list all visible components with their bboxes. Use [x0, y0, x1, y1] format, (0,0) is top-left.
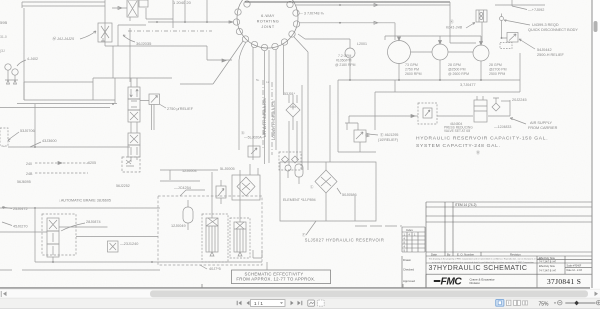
svg-text:FROM CARRIER: FROM CARRIER [528, 126, 558, 130]
svg-text:50J0586: 50J0586 [342, 193, 357, 197]
pump text blocks [405, 63, 507, 76]
wire bottom-left connectors [0, 208, 262, 270]
pump P2 [432, 44, 448, 60]
svg-text:2750 μ̸ RELIEF: 2750 μ̸ RELIEF [167, 107, 194, 111]
svg-text:28J0874: 28J0874 [86, 220, 101, 224]
wire top-left long box [22, 2, 105, 8]
svg-text:Scale #7040F: Scale #7040F [567, 265, 582, 268]
zoom in circle (clipped) [596, 301, 600, 305]
pump feed circle small [298, 34, 355, 58]
svg-text:12J0049: 12J0049 [171, 224, 186, 228]
relief valve 2750 [140, 94, 160, 130]
wire box under V2 [105, 25, 207, 46]
wire segments near V2 [112, 7, 127, 10]
svg-text:@2700 PM: @2700 PM [489, 68, 507, 72]
reservoir box [280, 162, 402, 226]
tool select icon [318, 300, 325, 306]
svg-text:53J01ⁿ: 53J01ⁿ [284, 92, 296, 96]
svg-text:54J0442: 54J0442 [537, 48, 552, 52]
svg-text:ELEMENT ⁿ5J-P894: ELEMENT ⁿ5J-P894 [283, 198, 316, 202]
wire top bus into joint [148, 21, 233, 23]
accumulator 12J0049 [183, 200, 193, 230]
svg-text:5L: 5L [256, 78, 260, 82]
svg-text:25J0472: 25J0472 [13, 207, 28, 211]
svg-text:(10̸ RELIEF): (10̸ RELIEF) [378, 138, 398, 142]
filter 50J0586 diamond [315, 162, 355, 221]
nav next button [291, 301, 294, 305]
tool snapshot icon [308, 300, 315, 306]
page input box [251, 300, 286, 307]
effectivity box [232, 250, 331, 284]
svg-text:Effectivity Note: Effectivity Note [539, 265, 556, 268]
svg-text:7.2 GPM: 7.2 GPM [338, 54, 352, 58]
svg-text:24B: 24B [26, 172, 33, 176]
wire left of pumps [302, 52, 338, 170]
svg-text:53J0706: 53J0706 [20, 129, 35, 133]
wire top dark rail [245, 1, 450, 3]
svg-text:28 GPM: 28 GPM [448, 63, 461, 67]
svg-text:— 3 7J0748 ⅜: — 3 7J0748 ⅜ [299, 12, 325, 16]
svg-text:VALVE SET AT 60̸: VALVE SET AT 60̸ [444, 129, 471, 133]
pump small pair bottom-left-top [5, 64, 18, 84]
svg-text:2500 PPM: 2500 PPM [489, 72, 505, 76]
svg-text:FROM APPROX. 12-77 TO APPROX.: FROM APPROX. 12-77 TO APPROX. [236, 276, 315, 281]
index table [402, 227, 425, 252]
spool valve SL1 [47, 218, 59, 262]
valve small 12J0004 [216, 180, 226, 204]
svg-text:Checked: Checked [403, 268, 414, 272]
svg-text:Drawn: Drawn [403, 258, 412, 262]
svg-text:1 2040 20: 1 2040 20 [173, 0, 192, 5]
svg-text:31-0: 31-0 [0, 35, 7, 39]
valve left-edge dashed [0, 128, 8, 146]
svg-text:75%: 75% [539, 301, 550, 307]
svg-text:Ⓑ: Ⓑ [476, 149, 480, 155]
svg-text:(3J: (3J [0, 49, 5, 53]
hydraulics divider dash-dot [262, 80, 264, 150]
nav last button [298, 301, 302, 305]
svg-text:HYDRAULIC RESERVOIR CAPACITY-1: HYDRAULIC RESERVOIR CAPACITY-150 GAL. [416, 136, 548, 142]
valve dashed enclosure [42, 214, 76, 255]
svg-text:4-J402: 4-J402 [27, 57, 38, 61]
sheet right border [591, 0, 593, 288]
valve V1 top-left with X [98, 23, 112, 42]
filter FL2 [230, 218, 250, 258]
svg-text:43J3600: 43J3600 [42, 139, 57, 143]
vertical scrollbar thumb [594, 21, 598, 32]
accumulator A1 [474, 96, 487, 122]
svg-text:6-WAY: 6-WAY [261, 14, 275, 18]
svg-text:Approved: Approved [403, 279, 415, 283]
svg-text:KL41-24B: KL41-24B [446, 26, 463, 30]
svg-text:Ⓚ: Ⓚ [450, 19, 454, 24]
svg-text:@ 2600 RPM: @ 2600 RPM [448, 72, 469, 76]
svg-text:–6205: –6205 [86, 161, 96, 165]
toolbar background [0, 289, 600, 309]
svg-text:JOINT: JOINT [261, 25, 274, 29]
svg-text:@ 2180 RPM: @ 2180 RPM [335, 63, 356, 67]
svg-text:Ⓐ: Ⓐ [241, 130, 245, 135]
wire dash-dot line [128, 30, 212, 32]
svg-text:—12J4833: —12J4833 [494, 125, 511, 129]
svg-text:SYSTEM CAPACITY-248 GAL.: SYSTEM CAPACITY-248 GAL. [416, 143, 501, 149]
valve 23J1240 [108, 241, 119, 252]
svg-text:—5LJ020A: —5LJ020A [244, 136, 262, 140]
svg-text:UPPER HYDRAULICS: UPPER HYDRAULICS [263, 98, 267, 137]
svg-text:74-7 24/7 B / #7: 74-7 24/7 B / #7 [539, 270, 557, 273]
svg-text:↓AUTOMATIC BRAKE 38J6605: ↓AUTOMATIC BRAKE 38J6605 [59, 198, 111, 202]
layout icon two-up [514, 300, 521, 305]
wires descending from joint [253, 45, 284, 164]
label press reducing [444, 122, 473, 133]
svg-text:L2001: L2001 [357, 42, 367, 46]
svg-text:Ⓕ: Ⓕ [302, 232, 306, 237]
svg-text:—+7J092: —+7J092 [528, 8, 544, 12]
layout icon scrolling [507, 300, 511, 305]
pressure reducing valve PR1 [418, 103, 437, 124]
valve stack VA [128, 78, 140, 122]
wire under check [289, 121, 297, 165]
wire right drop [450, 2, 482, 43]
svg-text:ITEM 14 (74-2): ITEM 14 (74-2) [455, 203, 476, 207]
horizontal scrollbar thumb [150, 290, 588, 297]
svg-text:36J2035: 36J2035 [136, 41, 152, 46]
valve stack VB [128, 122, 140, 162]
svg-text:FMC: FMC [441, 277, 463, 288]
wire joint to pumps top [296, 4, 450, 7]
pump P1 [388, 41, 411, 64]
nav prev button [247, 301, 250, 305]
svg-text:2500-H RELIEF: 2500-H RELIEF [537, 53, 564, 57]
svg-text:1 / 1: 1 / 1 [254, 301, 263, 306]
wire reservoir frame [375, 53, 520, 130]
svg-text:5LJ0005: 5LJ0005 [220, 167, 235, 171]
svg-text:Index: Index [406, 228, 413, 232]
wire vertical riser [113, 46, 115, 104]
svg-text:74-7 24/7 B / #7: 74-7 24/7 B / #7 [539, 260, 557, 263]
svg-text:This drawing is the property o: This drawing is the property of FMC Corp… [429, 257, 543, 260]
svg-text:Date: Date [431, 253, 437, 257]
layout icon two-up scrolling [523, 301, 528, 305]
svg-text:@2500 PM: @2500 PM [448, 68, 466, 72]
nav first-page button [237, 301, 249, 305]
svg-text:U4399-3 REQD: U4399-3 REQD [532, 23, 559, 27]
svg-text:45J0270: 45J0270 [13, 225, 28, 229]
wire long bus y208 [0, 207, 160, 209]
svg-text:2750 PM: 2750 PM [405, 68, 419, 72]
svg-text:2600 RPM: 2600 RPM [405, 72, 422, 76]
svg-text:Division: Division [470, 281, 481, 285]
right small cells [537, 256, 592, 288]
valve 51J020 box [248, 146, 260, 157]
svg-text:#1050/PM: #1050/PM [336, 59, 352, 63]
svg-text:56J6095: 56J6095 [17, 180, 31, 184]
window bottom edge [0, 308, 600, 309]
svg-text:12J0004: 12J0004 [182, 169, 197, 173]
quick disconnect Q1 [500, 14, 508, 39]
svg-text:Date 12 - 2-03: Date 12 - 2-03 [567, 269, 583, 272]
bottom row divider [425, 274, 427, 287]
svg-text:240: 240 [26, 162, 32, 166]
h-scroll right arrow [595, 292, 599, 297]
svg-text:73 GPM: 73 GPM [405, 63, 418, 67]
h-scroll left arrow [3, 292, 7, 297]
svg-text:AIR SUPPLY: AIR SUPPLY [530, 121, 553, 125]
svg-text:56J2252: 56J2252 [116, 184, 130, 188]
fold mark ticks [202, 284, 403, 288]
layout icon single (active) [496, 299, 504, 306]
svg-text:ROTATING: ROTATING [257, 20, 280, 24]
toolbar top divider [0, 297, 600, 299]
svg-text:QUICK DISCONNECT BODY: QUICK DISCONNECT BODY [528, 28, 578, 32]
page bottom edge [0, 287, 590, 289]
zoom slider [565, 302, 595, 304]
svg-text:5LJ5027 HYDRAULIC RESERVOIR: 5LJ5027 HYDRAULIC RESERVOIR [305, 238, 384, 243]
vertical scrollbar track [593, 0, 600, 288]
wire x105 drop [104, 0, 106, 46]
wire mid connectors [8, 104, 130, 147]
relief valve E [338, 123, 376, 152]
wire valve to 23J1240 [59, 227, 158, 237]
filter F0 diamond in box [232, 175, 260, 200]
horizontal scrollbar track [0, 290, 600, 298]
zoom out circle [558, 301, 562, 305]
svg-text:or in part, of design and spec: or in part, of design and special or com… [432, 261, 535, 264]
svg-text:20J2245: 20J2245 [512, 98, 527, 102]
title block frame [426, 202, 592, 274]
svg-text:40J7ⁿ5: 40J7ⁿ5 [209, 267, 221, 271]
svg-text:28 GPM: 28 GPM [489, 63, 502, 67]
bottom-left dashed manifold [35, 157, 140, 173]
middle-left big box [0, 78, 117, 108]
svg-text:—23J1240: —23J1240 [120, 242, 138, 246]
valve top-right box [476, 10, 487, 22]
air fitting D1 [492, 98, 500, 111]
wire suction bus [338, 58, 520, 80]
valve V2 top-center hatched [127, 0, 148, 21]
svg-text:37J0841 S: 37J0841 S [547, 277, 581, 286]
filter FL1 [202, 214, 228, 262]
center cluster: dashed box with filter [158, 196, 262, 265]
svg-text:3,7J0477: 3,7J0477 [460, 83, 476, 87]
wire pump links [385, 36, 481, 52]
twin check dashed box [279, 152, 301, 170]
svg-text:Ⓔ 46J1295: Ⓔ 46J1295 [380, 132, 398, 137]
fine print [429, 257, 543, 264]
FMC logo [434, 277, 463, 288]
svg-text:59B: 59B [0, 20, 7, 25]
revision columns [445, 202, 481, 256]
svg-text:LOWER HYDRAULICS: LOWER HYDRAULICS [272, 100, 276, 140]
svg-text:Ⓜ J4J-J4J25: Ⓜ J4J-J4J25 [52, 36, 75, 41]
wire left vertical bus [23, 8, 25, 100]
svg-text:—JC4254: —JC4254 [174, 186, 191, 190]
pump P3 [473, 45, 489, 61]
rotating joint circle U1 [233, 0, 299, 51]
svg-text:L2: L2 [266, 80, 270, 84]
svg-text:37HYDRAULIC SCHEMATIC: 37HYDRAULIC SCHEMATIC [429, 265, 528, 272]
check valve diamond CV1 [286, 95, 300, 130]
rev header row [431, 253, 521, 257]
wires center cluster [160, 164, 258, 222]
svg-text:E. O. Number: E. O. Number [457, 253, 474, 257]
relief valve R1 [500, 33, 518, 49]
svg-text:Revision: Revision [510, 253, 521, 257]
